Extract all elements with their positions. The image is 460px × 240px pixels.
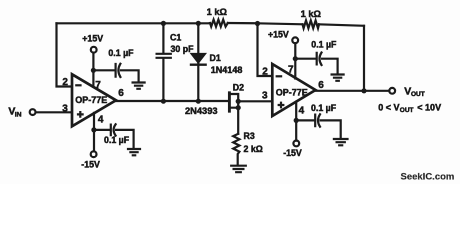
opamp U2 triangle (272, 64, 315, 116)
label +15V opamp1 (82, 34, 103, 44)
svg-text:4: 4 (299, 105, 305, 116)
label R2 value (301, 9, 322, 19)
wire opamp1 pin7 (92, 53, 94, 87)
label 0.1uF opamp2 top (311, 40, 337, 50)
wire opamp2 pin4 (295, 102, 297, 141)
label -15V opamp2 (283, 148, 302, 158)
node feedback2 top (255, 21, 260, 26)
svg-text:OUT: OUT (411, 91, 425, 98)
label R3 value (244, 144, 263, 154)
label -15V opamp1 (81, 160, 100, 170)
terminal -15V opamp2 (293, 141, 299, 147)
label C1 value (171, 44, 195, 54)
svg-text:0.1 µF: 0.1 µF (311, 40, 337, 50)
label pin7 opamp1 (95, 80, 101, 91)
svg-text:2: 2 (262, 66, 268, 77)
ground opamp2 bottom cap (334, 139, 348, 145)
wire D2 to opamp2 pin3 (238, 100, 271, 102)
label pin6 opamp2 (318, 80, 324, 91)
svg-text:7: 7 (95, 80, 101, 91)
svg-text:C1: C1 (170, 32, 181, 42)
opamp2 plus (278, 102, 285, 109)
label R1 value (207, 7, 228, 17)
label +15V opamp2 (268, 30, 289, 40)
svg-text:1N4148: 1N4148 (211, 65, 243, 75)
capacitor 0.1uF opamp1 top (116, 64, 121, 77)
ground opamp1 bottom cap (128, 149, 140, 155)
svg-text:OUT: OUT (400, 107, 414, 114)
svg-text:3: 3 (62, 103, 68, 114)
node D1 bottom (196, 99, 201, 104)
capacitor C1 plates (157, 54, 171, 58)
label Vout (404, 86, 424, 99)
label D1 (210, 53, 221, 63)
svg-text:3: 3 (262, 90, 268, 101)
label pin4 opamp1 (98, 114, 104, 125)
wire top rail right (319, 24, 364, 26)
svg-text:1 kΩ: 1 kΩ (207, 7, 228, 17)
node output feedback (361, 88, 366, 93)
svg-text:0.1 µF: 0.1 µF (104, 135, 130, 145)
wire Vin to pin3 (36, 111, 71, 113)
opamp1 plus (77, 111, 84, 118)
label pin3 opamp2 (262, 90, 268, 101)
resistor R2 (303, 21, 320, 29)
svg-text:0.1 µF: 0.1 µF (311, 103, 337, 113)
wire output (316, 90, 390, 92)
node opamp2 -15V (294, 118, 299, 123)
svg-text:0 < V: 0 < V (378, 103, 399, 113)
node opamp2 +15V (293, 56, 298, 61)
label pin6 opamp1 (118, 88, 124, 99)
diode D1 (191, 54, 206, 65)
resistor R1 (210, 20, 228, 27)
capacitor 0.1uF opamp1 bottom (111, 124, 116, 135)
wire right feedback down (363, 26, 365, 91)
svg-text:2N4393: 2N4393 (185, 106, 218, 116)
wire feedback left to pin2 (57, 23, 71, 86)
terminal -15V opamp1 (91, 151, 97, 157)
label opamp1 name (75, 95, 107, 105)
wire D1 branch (197, 23, 199, 101)
label pin4 opamp2 (299, 105, 305, 116)
svg-text:-15V: -15V (81, 160, 100, 170)
svg-text:D2: D2 (233, 82, 244, 92)
svg-text:4: 4 (98, 114, 104, 125)
ground opamp1 top cap (133, 83, 145, 89)
watermark SeekIC.com (401, 171, 455, 182)
svg-text:7: 7 (288, 65, 294, 76)
label output range (378, 103, 441, 114)
svg-text:+15V: +15V (82, 34, 103, 44)
label Vin (8, 105, 21, 118)
label opamp2 name (276, 87, 308, 97)
node D1 top (196, 21, 201, 26)
label pin7 opamp2 (288, 65, 294, 76)
svg-text:30 pF: 30 pF (171, 44, 195, 54)
terminal +15V opamp2 (292, 37, 298, 43)
svg-text:OP-77E: OP-77E (75, 95, 107, 105)
ground opamp2 top cap (332, 75, 344, 81)
label pin2 opamp2 (262, 66, 268, 77)
node opamp1 -15V (91, 127, 96, 132)
label 0.1uF opamp1 bottom (104, 135, 130, 145)
svg-text:6: 6 (318, 80, 324, 91)
opamp1 minus (75, 84, 81, 86)
svg-text:0.1 µF: 0.1 µF (108, 48, 134, 58)
svg-text:SeekIC.com: SeekIC.com (401, 171, 455, 182)
svg-text:OP-77E: OP-77E (276, 87, 308, 97)
wire feedback2 to opamp2 pin2 (258, 23, 272, 76)
node D2 source (236, 105, 241, 110)
opamp U1 triangle (72, 74, 116, 126)
terminal Vout (389, 88, 395, 94)
node C1 bottom (161, 99, 166, 104)
wire C1 branch (162, 23, 164, 101)
label D1 type (211, 65, 243, 75)
label pin2 opamp1 (62, 77, 68, 88)
terminal Vin (30, 109, 36, 115)
wire opamp1 bypass cap top (93, 70, 138, 82)
terminal +15V opamp1 (91, 47, 97, 53)
svg-text:D1: D1 (210, 53, 221, 63)
label pin3 opamp1 (62, 103, 68, 114)
svg-text:2 kΩ: 2 kΩ (244, 144, 263, 154)
wire opamp1 pin4 (93, 113, 95, 151)
ground R3 (231, 166, 246, 173)
svg-text:6: 6 (118, 88, 124, 99)
label D2 (233, 82, 244, 92)
svg-text:-15V: -15V (283, 148, 302, 158)
node D2 drain (236, 99, 241, 104)
svg-text:R3: R3 (244, 131, 255, 141)
svg-text:< 10V: < 10V (417, 103, 441, 113)
node C1 top (161, 21, 166, 26)
wire opamp2 bypass cap top (295, 59, 337, 74)
wire top rail left (57, 22, 211, 24)
svg-text:+15V: +15V (268, 30, 289, 40)
label 0.1uF opamp1 top (108, 48, 134, 58)
wire opamp2 bypass cap bottom (296, 120, 341, 138)
wire opamp2 pin7 (294, 43, 296, 78)
wire top rail mid (228, 23, 303, 24)
label C1 (170, 32, 181, 42)
resistor R3 (233, 134, 239, 166)
label R3 (244, 131, 255, 141)
node opamp1 +15V (91, 68, 96, 73)
capacitor 0.1uF opamp2 bottom (315, 114, 320, 126)
label 0.1uF opamp2 bottom (311, 103, 337, 113)
svg-text:IN: IN (15, 111, 22, 118)
opamp2 minus (276, 75, 283, 77)
svg-text:2: 2 (62, 77, 68, 88)
capacitor 0.1uF opamp2 top (317, 53, 322, 66)
transistor-diode D2 2N4393 (229, 93, 238, 134)
label D2 type 2N4393 (185, 106, 218, 116)
svg-text:1 kΩ: 1 kΩ (301, 9, 322, 19)
wire opamp1 bypass cap bottom (94, 130, 134, 149)
wire middle rail (116, 100, 228, 102)
